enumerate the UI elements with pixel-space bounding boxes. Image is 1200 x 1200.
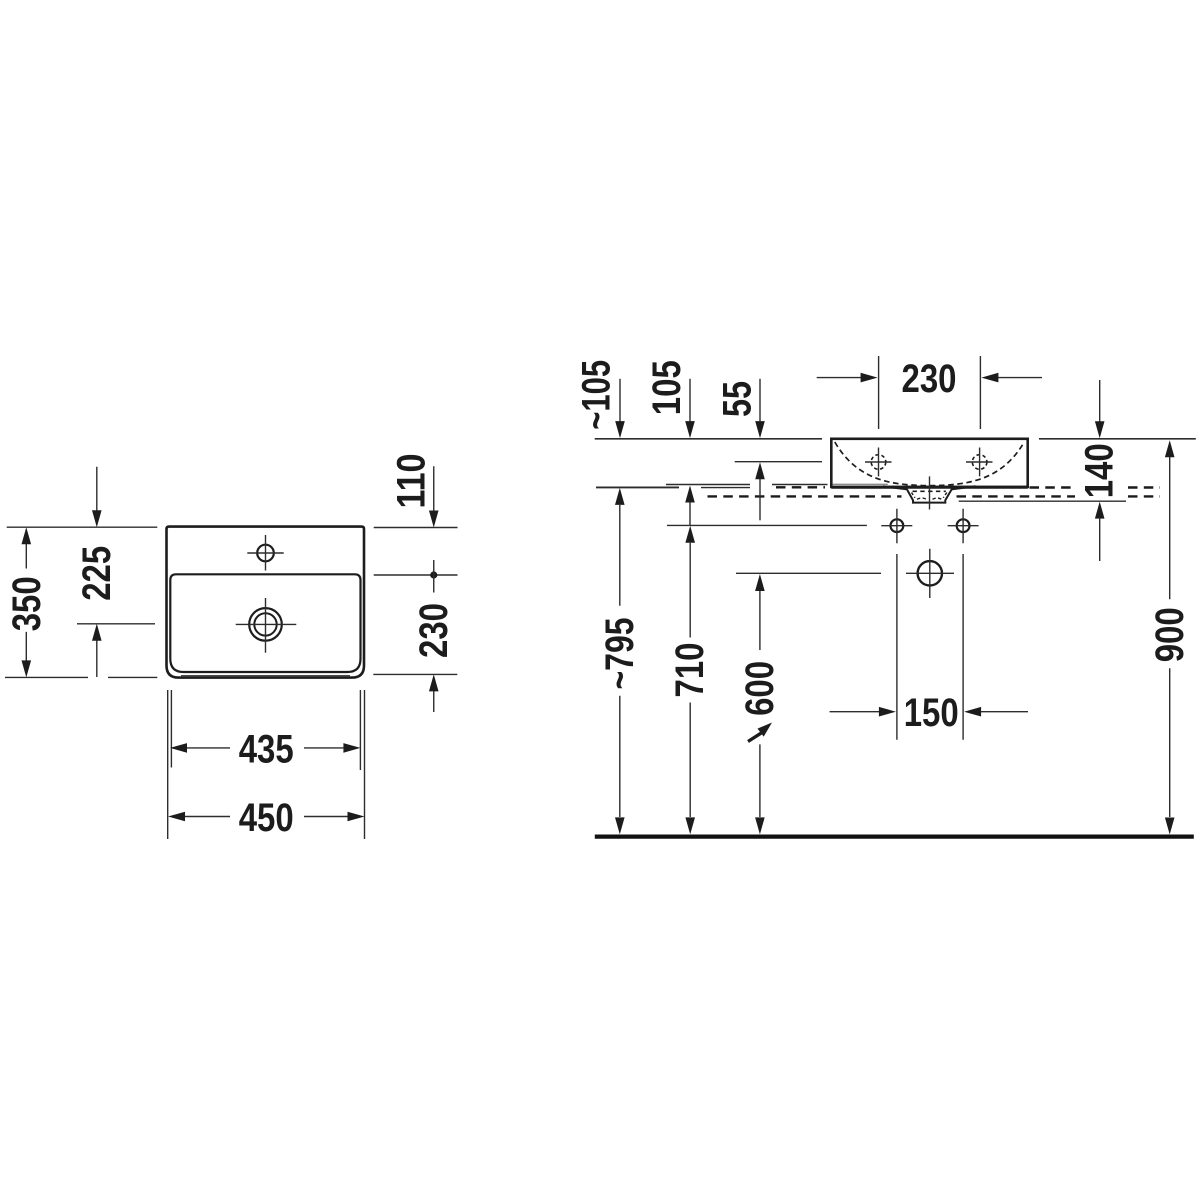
ref line ~105 target <box>596 486 679 488</box>
ref line 105 target <box>666 484 828 486</box>
wall dashed line lower <box>708 495 1161 497</box>
dimension 350 <box>5 527 49 677</box>
drain fitting outline <box>906 488 952 502</box>
svg-text:~795: ~795 <box>598 618 642 690</box>
bowl profile dashed curve <box>835 442 1024 486</box>
rim reference line left of basin <box>595 438 822 440</box>
svg-text:900: 900 <box>1148 607 1192 662</box>
ext line top-left <box>7 526 158 528</box>
ext vertical 435 left <box>170 690 172 768</box>
ext line drain level left <box>77 623 155 625</box>
drain centerlines <box>236 598 297 653</box>
svg-text:600: 600 <box>738 661 782 716</box>
faucet hole centerlines <box>247 535 283 571</box>
dimension 710 <box>668 526 712 835</box>
600 leader slant arrow <box>748 732 764 742</box>
ref line short below basin left <box>701 487 750 489</box>
drain outlet circle <box>918 561 942 585</box>
svg-text:230: 230 <box>902 357 957 401</box>
drain inner circle (top view) <box>254 613 276 635</box>
basin bottom edge thick <box>831 486 1027 489</box>
svg-text:710: 710 <box>668 643 712 698</box>
drain fitting dashed detail <box>913 490 946 492</box>
ext line top-right <box>374 527 458 529</box>
svg-text:225: 225 <box>75 546 119 601</box>
dimension 140 <box>1078 380 1122 561</box>
ref line 710 target <box>667 524 867 526</box>
dimension 600 <box>738 574 782 834</box>
drain outlet centerlines <box>906 549 954 598</box>
basin under-edge line (top view) <box>181 675 350 677</box>
drain centerline vertical <box>929 476 931 509</box>
basin outer rim rect (top view) <box>167 527 365 678</box>
ext vertical 150 left <box>896 554 898 740</box>
basin bottom dip to drain right <box>952 486 975 489</box>
svg-text:230: 230 <box>412 603 456 658</box>
dimension 55 lower arrow <box>755 462 765 520</box>
svg-text:105: 105 <box>645 360 689 415</box>
dimension 110 <box>390 454 439 528</box>
mounting hole left centerlines <box>881 509 912 544</box>
svg-text:55: 55 <box>716 381 760 417</box>
mounting hole right <box>957 519 970 532</box>
dimension 435 <box>170 727 360 771</box>
svg-text:140: 140 <box>1078 443 1122 498</box>
dimension 450 <box>168 796 365 840</box>
basin inner bowl rect (top view) <box>170 574 360 672</box>
dimension 900 <box>1148 440 1192 834</box>
ext vertical 435 right <box>359 690 361 770</box>
ext vertical 450 left <box>167 690 169 839</box>
ext line bottom-right <box>373 673 457 675</box>
dimension 55 <box>716 379 765 438</box>
ext line bottom-left <box>5 676 157 678</box>
dimension ~795 <box>598 488 642 835</box>
dimension ~105 <box>575 360 625 438</box>
ref line 140 lower target <box>959 500 1126 502</box>
rim reference line right of basin <box>1039 438 1196 440</box>
faucet hole left (front view) dashed circle <box>871 455 886 470</box>
mounting hole left <box>891 519 904 532</box>
dimension 105 lower arrow <box>685 486 695 526</box>
svg-text:110: 110 <box>390 454 434 509</box>
svg-text:150: 150 <box>904 691 959 735</box>
faucet hole (top view) <box>257 545 274 562</box>
ref line 55 target <box>735 461 822 463</box>
svg-text:450: 450 <box>239 796 294 840</box>
faucet hole left centerlines <box>865 448 892 477</box>
basin body (front view) <box>831 439 1027 487</box>
ext line inner-top right <box>374 574 458 576</box>
inner shadow line bottom-left of basin <box>833 483 888 485</box>
dimension 150 <box>830 691 1028 735</box>
svg-text:~105: ~105 <box>575 360 619 430</box>
ref line 600 target <box>736 572 881 574</box>
mounting hole right centerlines <box>948 509 979 544</box>
dimension 105 <box>645 360 695 438</box>
dimension 230 (front view top) <box>817 356 1042 429</box>
ext vertical 150 right <box>962 554 964 740</box>
basin bottom dip to drain left <box>883 486 907 489</box>
faucet hole right centerlines <box>966 448 993 477</box>
dimension 230 (top view) dot terminator <box>412 560 456 712</box>
svg-text:435: 435 <box>239 727 294 771</box>
ext vertical 450 right <box>364 690 366 839</box>
faucet hole right (front view) dashed circle <box>972 455 987 470</box>
wall dashed line upper <box>776 486 1160 489</box>
floor line <box>595 834 1194 838</box>
svg-text:350: 350 <box>5 576 49 631</box>
drain outer circle (top view) <box>249 608 282 641</box>
dimension 225 <box>75 467 119 677</box>
extension lines, left view <box>5 527 458 839</box>
